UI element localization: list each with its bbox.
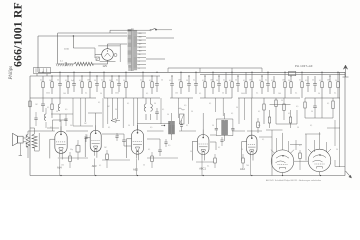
svg-text:0,1: 0,1 [146,93,148,95]
svg-text:0,5: 0,5 [258,125,260,127]
resistor R60 between output tubes [299,150,301,153]
capacitor C12 drop [267,72,269,83]
rail mid segment 2 [104,97,160,99]
svg-text:0,1: 0,1 [243,80,245,82]
svg-text:0,1: 0,1 [140,80,142,82]
resistor R51 cathode [106,150,108,154]
resistor R35 [275,98,277,100]
svg-text:0,5: 0,5 [299,145,301,147]
resistor R8 drop [111,76,113,82]
label Philips brand vertical [9,20,14,80]
wire left-mid horizontal y126 [73,125,93,127]
svg-text:0,1: 0,1 [169,80,171,82]
svg-text:0,1: 0,1 [60,61,64,63]
wire T2 primary bottom [27,147,29,158]
tube V5 anode lead [251,130,253,135]
svg-text:110: 110 [139,51,142,53]
wire V7 bottom lead [319,172,321,176]
label model 666/1001 RF vertical [12,0,25,67]
capacitor C40 coupling [122,139,126,141]
resistor R24 drop [321,72,323,82]
IFT1 core [171,121,173,135]
svg-text:50: 50 [143,165,145,167]
resistor R3 drop [51,76,53,82]
resistor R23 drop [301,72,303,82]
wire transformer tap lead upper [146,37,174,39]
capacitor C7 drop [171,76,173,84]
svg-text:50: 50 [241,149,243,151]
svg-text:50: 50 [167,114,169,116]
svg-text:50: 50 [57,80,59,82]
resistor R25 drop [329,76,331,82]
svg-text:0,5: 0,5 [296,106,298,108]
resistor R11 drop [151,76,153,82]
svg-text:0,1: 0,1 [207,166,209,168]
coil L2 oscillator [145,98,147,104]
wire rectifier horizontals [98,45,120,47]
svg-text:0,5: 0,5 [65,109,67,111]
rail mid segment 4 [200,97,232,99]
tube V1 envelope [55,131,67,153]
electrolytic C42 cathode [76,146,80,153]
resistor R5 drop [81,76,83,82]
capacitor C11 drop [237,76,239,84]
wire between round tubes [294,160,308,162]
svg-text:0,1: 0,1 [108,127,110,129]
svg-text:0,1: 0,1 [199,93,201,95]
svg-text:220: 220 [139,33,142,35]
capacitor C54 near IFT1 [165,139,167,142]
svg-text:0,1: 0,1 [186,125,188,127]
svg-text:0,5: 0,5 [149,80,151,82]
capacitor C51 left mid [65,114,67,119]
capacitor C41 coupling [158,149,162,151]
capacitor C20 left [42,98,44,104]
mains input block [34,68,51,74]
rail mid segment 3 [170,97,193,99]
tube V5 cathode lead [250,155,252,159]
wire tube V5 top link [251,98,253,135]
svg-text:2M: 2M [107,106,110,108]
svg-text:50: 50 [335,80,337,82]
svg-text:50: 50 [186,80,188,82]
wire coupling v3-v4 [147,138,160,140]
resistor R12 drop [180,72,182,82]
capacitor C2 drop [59,72,61,83]
wire rectifier right vertical [119,44,121,62]
svg-text:4: 4 [139,61,140,63]
svg-text:0,1: 0,1 [288,113,290,115]
svg-text:50: 50 [190,151,192,153]
wire round tube V7 extra leads [314,140,316,152]
wire tube V1 top link [60,120,62,131]
resistor R1 dropping zigzag [74,62,93,65]
svg-text:0,1: 0,1 [47,107,49,109]
wire V6 top lead [282,133,284,150]
transformer T1 primary lower ticks [128,65,131,67]
tube V2 cathode lead [94,152,96,156]
wire second mains vertical [57,33,59,64]
wire second mains lead [58,32,127,34]
svg-text:50: 50 [336,149,338,151]
wire y68 bus drops [167,68,169,72]
svg-text:0,1: 0,1 [223,80,225,82]
wire round tubes side leads [271,130,273,162]
wire anode coupling y131 [66,130,88,132]
tube V7 electrode arcs [313,155,326,158]
tube V4 grid lead [192,140,197,142]
wire mid-right links [270,104,291,106]
resistor R10 drop [142,72,144,82]
coil hatch row left of R1 [56,63,57,66]
wire mains lead-in vertical [37,36,39,72]
capacitor C53 between tubes [116,133,118,136]
bus bottom rail [30,175,345,177]
tube V2 anode lead [95,125,97,130]
wire verticals x239 x244 [238,98,240,124]
wire mains lead-in top [38,35,127,37]
svg-text:6: 6 [139,58,140,60]
tube V4 anode lead [202,130,204,135]
wire mid verticals extra [107,98,109,124]
resistor R33 mid right [263,98,265,104]
svg-text:50: 50 [191,111,193,113]
wire cross right of V6 [295,140,297,150]
wave symbol oscillator [179,108,185,110]
wire speaker down lead [19,143,21,156]
svg-text:0: 0 [139,68,140,70]
svg-text:0,5: 0,5 [168,145,170,147]
svg-text:50: 50 [100,93,102,95]
node bus junctions [42,72,43,73]
svg-text:5000: 5000 [241,93,245,95]
wire transformer tap lead lower [146,58,165,60]
svg-text:150: 150 [139,40,142,42]
wire horizontals above round tubes [266,129,283,131]
svg-text:0,1: 0,1 [209,103,211,105]
svg-text:50: 50 [115,109,117,111]
IFT2 core [224,120,226,135]
node A junction [73,35,74,36]
switch S1 lever [151,28,155,30]
capacitor C13 drop [307,76,309,84]
svg-text:50: 50 [222,93,224,95]
svg-text:0,1: 0,1 [334,93,336,95]
svg-text:50: 50 [70,125,72,127]
tube V1 anode lead [60,126,62,131]
bus screen rail right [200,73,345,75]
rail right vertical [344,72,346,175]
wire coupling v4-v5 [210,141,216,143]
svg-text:0,1: 0,1 [258,111,260,113]
resistor R54 cathode [242,154,244,158]
bus HT2 rail upper right [168,67,262,69]
svg-text:50: 50 [161,80,163,82]
rectifier tube U1 envelope [102,49,114,61]
svg-text:0,1: 0,1 [50,127,52,129]
resistor R36 [283,98,285,104]
transformer T1 primary winding ticks [128,29,132,31]
svg-text:220Ω: 220Ω [64,49,69,51]
resistor R20 drop [273,76,275,82]
rectifier U1 filament [105,53,111,57]
potentiometer P1 with hatch [180,114,185,124]
label component values scatter [35,80,338,168]
resistor R15 drop [225,72,227,82]
wire from R1 to rectifier [93,63,108,65]
svg-text:0,1: 0,1 [265,80,267,82]
tube V6 electrode arcs [276,155,289,158]
wire rectifier cathode down [107,60,109,64]
svg-text:0,5: 0,5 [79,80,81,82]
wire from switch [157,29,172,31]
ground chassis arrow [346,171,352,178]
coil L3 oscillator [151,104,153,111]
svg-text:1M: 1M [210,80,213,82]
svg-text:AB 2041 Schaltbild Philips 66: AB 2041 Schaltbild Philips 666 RF – Ände… [266,179,321,182]
svg-text:0,1: 0,1 [319,80,321,82]
resistor R37 [290,110,292,117]
svg-text:125: 125 [139,47,142,49]
svg-text:20: 20 [139,54,141,56]
wire mid horizontal y123 [137,123,170,125]
resistor R30 left rail [29,101,31,107]
svg-text:0,1: 0,1 [299,80,301,82]
svg-text:127: 127 [139,44,142,46]
resistor R52 cathode [151,152,153,156]
node pin circle rectifier [114,54,117,57]
svg-text:2M: 2M [249,80,252,82]
tube V3 anode lead [137,125,139,130]
tube V6 diagonal leads [271,150,275,154]
tube V6 envelope top view [271,150,294,173]
svg-text:50: 50 [259,80,261,82]
transformer T1 secondary winding ticks [134,30,137,32]
wire speaker to transformer [23,137,26,139]
svg-text:0,1: 0,1 [40,80,42,82]
output transformer T2 secondary winding [32,134,37,148]
svg-text:100: 100 [278,93,281,95]
volume control arrow [111,119,116,123]
capacitor C52 between tubes [85,134,87,137]
svg-text:150: 150 [61,165,64,167]
rail mid segment 6 [305,97,340,99]
tube V3 envelope [132,130,144,154]
svg-text:0,1: 0,1 [327,103,329,105]
svg-text:50: 50 [288,80,290,82]
svg-text:50: 50 [128,125,130,127]
tube V4 envelope [197,135,209,155]
rail left vertical [29,76,31,176]
wire tap vertical [72,36,74,48]
switch S1 contacts [150,30,151,31]
capacitor C14 drop [314,76,316,84]
resistor R18 drop [251,72,253,82]
wire tube V2 top link [95,113,97,130]
wire tube bottoms to rail [59,159,61,176]
svg-text:50: 50 [94,80,96,82]
resistor R14 drop [212,72,214,82]
svg-text:50: 50 [117,135,119,137]
wire mains block stubs [36,74,38,77]
svg-text:0,5: 0,5 [229,80,231,82]
wire IFT1 bottom lead [171,135,173,140]
wire junction to rectifier [73,47,95,49]
resistor R2 drop [42,76,44,82]
loudspeaker LS driver box [18,136,24,143]
svg-text:50: 50 [154,103,156,105]
tube V2 grid lead [85,137,90,139]
tube V1 grid lead [50,138,55,140]
wire T2 primary top link [27,131,29,134]
resistor R19 drop [261,76,263,82]
svg-text:50: 50 [318,93,320,95]
svg-text:1M: 1M [282,80,285,82]
antenna A1 up arrow [345,66,347,77]
IF transformer IFT1 windings [168,121,171,123]
resistor R21 drop [284,72,286,82]
svg-text:5000: 5000 [46,93,50,95]
svg-text:50: 50 [212,125,214,127]
capacitor C61 IFT1 right [180,124,183,126]
wire round tube V6 extra leads [276,138,278,152]
capacitor C1 mains filter [58,63,64,65]
svg-text:0,1: 0,1 [86,135,88,137]
resistor R17 drop [245,72,247,82]
svg-text:0,1: 0,1 [148,149,150,151]
svg-text:0,1: 0,1 [310,125,312,127]
svg-text:50: 50 [216,80,218,82]
svg-text:0,1: 0,1 [295,93,297,95]
svg-text:50: 50 [312,80,314,82]
transformer T1 secondary taps [137,32,146,34]
svg-text:200: 200 [139,37,142,39]
resistor R22 drop [290,76,292,82]
resistor R7 drop [103,72,105,82]
resistor R39 far right tall [332,98,334,101]
capacitor C63 IFT2 right [231,127,234,129]
wire segment y128 far right [327,127,340,129]
tube V5 grid lead [242,141,247,143]
tube V4 cathode lead [201,155,203,159]
svg-text:ABC1: ABC1 [199,167,206,171]
coil L5 left mid [44,114,46,120]
resistor R16 drop [231,72,233,82]
wire coupling v2-v3 [102,133,124,135]
transformer T1 core [131,29,133,72]
svg-text:50: 50 [123,80,125,82]
svg-text:50: 50 [297,127,299,129]
svg-text:AK2: AK2 [240,167,245,171]
bus +HT rail [38,71,345,73]
capacitor C4 drop [96,76,98,84]
component hatched small [96,57,99,60]
tube V3 grid lead [127,138,132,140]
wire segment y131 right [247,130,262,132]
wire right links [305,117,333,119]
wire V7 top lead [319,132,321,149]
svg-text:0,1: 0,1 [193,80,195,82]
capacitor C62 IFT2 left [215,127,218,129]
svg-text:0,5: 0,5 [202,80,204,82]
svg-text:0,1: 0,1 [127,103,129,105]
wire left-mid verticals extra [72,98,74,126]
capacitor C10 drop [218,76,220,84]
svg-text:0,5: 0,5 [271,80,273,82]
IF transformer IFT2 windings [221,120,224,122]
capacitor C55 near IFT2 [221,137,223,140]
wire right bottom link [335,166,345,168]
svg-text:0,1: 0,1 [99,165,101,167]
rail mid segment 5 [238,97,300,99]
svg-text:50: 50 [56,111,58,113]
wire cathode bus segments [58,157,88,159]
resistor R61 right mid [257,118,259,122]
resistor R31 [51,98,53,104]
svg-text:2M: 2M [104,147,107,149]
svg-text:50: 50 [281,100,283,102]
wire rectifier anode to transformer [107,44,109,49]
svg-text:0,1: 0,1 [162,109,164,111]
svg-text:50: 50 [311,111,313,113]
tube V5 envelope [247,135,257,154]
box pickup connector [289,72,296,76]
svg-text:0,1: 0,1 [98,102,100,104]
svg-text:0,1: 0,1 [101,80,103,82]
resistor R9 drop [125,72,127,82]
wire V6 bottom lead [282,173,284,176]
tube V3 cathode lead [135,154,137,158]
svg-text:0,1: 0,1 [218,147,220,149]
bus screen rail left [30,75,160,77]
wire verticals mid-left [102,98,104,128]
capacitor C9 drop [195,72,197,83]
wire tube V3 top link [137,98,139,130]
svg-text:0,1: 0,1 [256,93,258,95]
node bottom rail junctions [60,175,61,176]
capacitor C30 far right [314,98,316,106]
wire IFT2 top bottom leads [224,113,226,119]
rail right second vertical [339,72,341,167]
capacitor C8 drop [188,76,190,84]
svg-text:0,5: 0,5 [305,80,307,82]
svg-text:0,1: 0,1 [262,139,264,141]
svg-text:4μF: 4μF [71,80,74,82]
svg-text:0,5: 0,5 [150,127,152,129]
wire tube V4 top link [202,113,204,135]
resistor R26 drop [337,72,339,82]
resistor R13 drop [204,76,206,82]
resistor R34 [269,110,271,117]
wire vertical x335 [334,120,336,146]
svg-text:5000: 5000 [115,93,119,95]
svg-text:PH·1007+AF: PH·1007+AF [295,64,313,68]
resistor R38 far right [304,98,306,102]
tube V7 diagonal leads [308,149,312,153]
rail mid segment 1 [30,97,96,99]
tube V2 envelope [90,130,101,152]
svg-text:12V: 12V [103,64,108,68]
svg-text:0,1: 0,1 [231,113,233,115]
tube V7 envelope top view [308,149,331,172]
wire T2 secondary top [34,128,36,134]
svg-text:0,1: 0,1 [116,80,118,82]
output transformer T2 primary winding [26,134,30,147]
svg-text:0,5: 0,5 [184,105,186,107]
svg-text:2M: 2M [84,123,87,125]
resistor R4 drop [67,76,69,82]
capacitor C25 padding [156,108,158,112]
